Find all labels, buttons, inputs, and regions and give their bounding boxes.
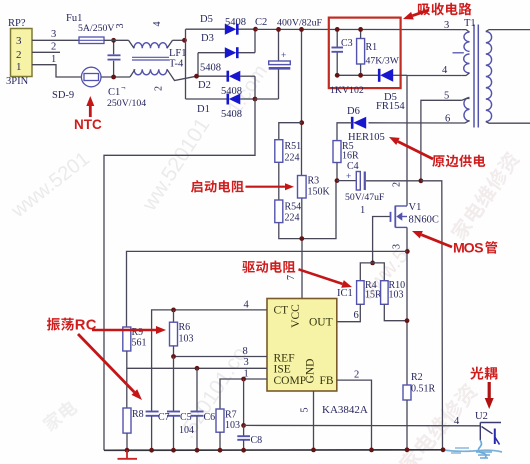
svg-text:T-4: T-4 xyxy=(169,59,184,70)
bridge left vertical bus xyxy=(185,29,187,99)
op-amp/PWM IC U1 KA3842A xyxy=(267,299,337,392)
svg-text:LF1: LF1 xyxy=(169,48,187,59)
sense wire MOSFET source to R9 xyxy=(127,251,408,327)
svg-text:0.51R: 0.51R xyxy=(411,384,436,395)
wire FB pin2 xyxy=(337,380,372,450)
svg-text:IC1: IC1 xyxy=(337,288,353,299)
svg-text:C5: C5 xyxy=(180,412,192,423)
svg-text:50V/47uF: 50V/47uF xyxy=(345,192,385,203)
capacitor C4 electrolytic xyxy=(337,171,421,190)
wire pin2 stub xyxy=(32,51,60,53)
junction R51 branch top xyxy=(299,120,304,125)
svg-text:3: 3 xyxy=(16,35,22,47)
bridge right vertical top xyxy=(254,29,256,53)
wire T1 pin4 to drain bus xyxy=(407,76,462,206)
svg-text:C3: C3 xyxy=(341,38,353,49)
wire D5 row xyxy=(186,28,225,30)
red arrow to U2 xyxy=(488,382,491,398)
svg-text:D1: D1 xyxy=(197,104,210,115)
red arrow to C7 xyxy=(78,334,134,392)
wire R51 branch xyxy=(279,123,302,140)
junction bus x407 xyxy=(405,447,410,452)
svg-text:¬: ¬ xyxy=(121,83,126,92)
capacitor C5 xyxy=(167,411,180,413)
svg-text:SD-9: SD-9 xyxy=(52,90,74,101)
svg-text:5: 5 xyxy=(299,407,310,412)
svg-text:2: 2 xyxy=(16,49,22,61)
svg-text:1: 1 xyxy=(51,54,56,65)
svg-text:103: 103 xyxy=(389,290,404,301)
svg-text:103: 103 xyxy=(179,334,194,345)
red label xishou dianlu (snubber circuit) xyxy=(418,3,430,15)
HV- return wire xyxy=(104,99,255,450)
svg-text:150K: 150K xyxy=(308,187,331,198)
red label qidong dianzu (startup resistor) xyxy=(191,180,203,192)
svg-text:ISE: ISE xyxy=(274,364,291,376)
svg-text:7: 7 xyxy=(286,275,297,280)
svg-text:250V/104: 250V/104 xyxy=(107,98,146,109)
svg-text:3: 3 xyxy=(244,357,249,368)
junction bus x173.5 xyxy=(171,448,176,453)
wire R8 to ground bus xyxy=(126,433,128,450)
wire pin3 to fuse xyxy=(32,39,79,41)
diode D5 (bridge) 5408 xyxy=(225,24,238,35)
svg-text:2: 2 xyxy=(51,42,56,53)
junction bridge + output xyxy=(253,27,258,32)
red label qudong dianzu (drive resistor) xyxy=(242,261,255,273)
svg-text:D6: D6 xyxy=(347,106,360,117)
capacitor C2 electrolytic xyxy=(255,29,290,99)
svg-text:3: 3 xyxy=(392,244,403,249)
svg-text:6: 6 xyxy=(354,310,359,321)
svg-text:224: 224 xyxy=(285,153,300,164)
junction bridge - output xyxy=(253,97,258,102)
wire NTC to C1 node xyxy=(101,76,130,78)
diode D3 5408 xyxy=(225,47,238,58)
ground bus bottom xyxy=(104,449,443,452)
junction R10/source bus xyxy=(405,318,410,323)
svg-text:R7: R7 xyxy=(225,410,237,421)
svg-text:4: 4 xyxy=(454,416,460,427)
junction bus x127 xyxy=(125,448,130,453)
wire R10 bottom to source bus xyxy=(384,304,407,320)
svg-text:4: 4 xyxy=(152,21,163,26)
svg-text:400V/82uF: 400V/82uF xyxy=(277,18,323,29)
capacitor C8 xyxy=(243,425,245,435)
resistor R54 xyxy=(275,200,283,223)
svg-text:COMP: COMP xyxy=(274,375,307,387)
transistor V1 8N60C MOSFET xyxy=(391,206,408,228)
svg-text:KA3842A: KA3842A xyxy=(322,404,368,416)
svg-text:2: 2 xyxy=(354,370,359,381)
junction choke top / bridge xyxy=(182,38,187,43)
capacitor C3 xyxy=(332,29,344,75)
red label yuanbian gongdian (primary supply) xyxy=(432,155,444,167)
svg-text:3: 3 xyxy=(115,23,126,28)
svg-text:561: 561 xyxy=(132,338,147,349)
svg-text:R8: R8 xyxy=(132,409,144,420)
startup bus vertical (R3 branch) xyxy=(301,29,303,175)
svg-text:D2: D2 xyxy=(198,80,211,91)
wire R9 to R8 xyxy=(126,351,128,408)
svg-text:5408: 5408 xyxy=(225,17,246,28)
common-mode choke LF1 T-4 xyxy=(129,40,197,80)
svg-text:CT: CT xyxy=(274,305,289,317)
wire D1 row xyxy=(186,98,228,100)
junction bus x243.6 xyxy=(241,448,246,453)
resistor R5 xyxy=(333,141,341,163)
svg-text:+: + xyxy=(346,171,351,181)
resistor R2 xyxy=(403,385,411,400)
wire GND pin5 xyxy=(313,391,315,450)
junction bus x371.5 xyxy=(369,448,374,453)
svg-text:C8: C8 xyxy=(251,435,263,446)
svg-text:104: 104 xyxy=(179,425,194,436)
junction C4 node xyxy=(335,178,340,183)
red arrow to R6 xyxy=(92,329,156,332)
bus continuation (light blue) xyxy=(443,450,502,452)
ground symbol (red) xyxy=(126,450,128,458)
wire COMP pin1 xyxy=(220,379,267,409)
capacitor C7 xyxy=(146,411,159,413)
wire R6 node down through C5 xyxy=(173,357,175,412)
wire R2 to bus xyxy=(406,400,408,450)
optocoupler U2 xyxy=(476,423,501,459)
svg-text:3: 3 xyxy=(51,29,56,40)
red arrow to MOSFET xyxy=(421,235,452,247)
red arrow to NTC xyxy=(89,106,92,117)
svg-text:R1: R1 xyxy=(366,42,378,53)
svg-text:8: 8 xyxy=(243,346,248,357)
svg-text:C2: C2 xyxy=(255,17,267,28)
svg-text:OUT: OUT xyxy=(309,317,333,329)
svg-text:R: R xyxy=(75,317,86,333)
svg-text:R2: R2 xyxy=(411,372,423,383)
svg-text:3PIN: 3PIN xyxy=(6,76,29,87)
fuse Fu1 xyxy=(79,37,104,44)
svg-text:C4: C4 xyxy=(347,161,359,172)
red label zhendang RC (oscillator RC) xyxy=(47,318,60,331)
svg-text:224: 224 xyxy=(285,213,300,224)
junction R6 top xyxy=(171,308,176,313)
svg-text:S: S xyxy=(474,240,483,256)
junction ISE / C6 xyxy=(195,366,200,371)
wire C4 node to right bus xyxy=(421,181,443,450)
HV+ top bus xyxy=(256,28,462,30)
junction startup bottom xyxy=(299,236,304,241)
svg-text:5408: 5408 xyxy=(221,109,242,120)
svg-text:16R: 16R xyxy=(342,151,359,162)
svg-text:3: 3 xyxy=(444,20,449,31)
svg-text:1: 1 xyxy=(360,205,365,216)
wire D2 row xyxy=(197,75,228,77)
junction bus x443 xyxy=(441,447,446,452)
diode D5 FR154 (snubber) xyxy=(379,69,393,82)
svg-text:4: 4 xyxy=(244,300,250,311)
red arrow to HER105 xyxy=(398,142,433,160)
wire ISE pin3 xyxy=(127,367,267,369)
junction COMP node xyxy=(241,377,246,382)
svg-text:RP?: RP? xyxy=(8,18,26,29)
svg-text:5A/250V: 5A/250V xyxy=(78,23,114,34)
junction bus x197 xyxy=(195,448,200,453)
resistor R10 xyxy=(381,281,389,305)
snubber bottom wire xyxy=(337,74,379,76)
connector RP? 3PIN xyxy=(11,29,33,77)
junction C3 bottom xyxy=(335,73,340,78)
svg-text:2: 2 xyxy=(154,86,165,91)
svg-text:5408: 5408 xyxy=(200,63,221,74)
resistor R3 xyxy=(298,176,307,199)
diode D6 HER105 xyxy=(352,117,366,129)
svg-text:+: + xyxy=(281,50,286,60)
drive rail wire xyxy=(360,263,384,281)
wire fuse to choke top xyxy=(104,39,129,41)
junction gate / drive rail xyxy=(370,261,375,266)
junction C2 top xyxy=(276,27,281,32)
resistor R6 xyxy=(170,310,178,357)
svg-text:T1: T1 xyxy=(464,18,476,29)
svg-text:NTC: NTC xyxy=(74,117,102,132)
wire D3 row xyxy=(198,52,225,54)
junction R1 top xyxy=(358,27,363,32)
bridge right vertical bottom xyxy=(254,76,256,99)
resistor R7 xyxy=(216,409,224,432)
diode D1 5408 xyxy=(228,94,241,105)
wire R4 bottom to OUT xyxy=(337,304,361,321)
junction C1 bottom xyxy=(111,75,116,80)
svg-text:FB: FB xyxy=(320,375,334,387)
svg-text:D5: D5 xyxy=(200,14,213,25)
svg-text:O: O xyxy=(464,240,475,256)
red arrow to R4 xyxy=(299,269,343,284)
resistor R8 xyxy=(123,408,131,433)
svg-text:R6: R6 xyxy=(179,322,191,333)
svg-text:1: 1 xyxy=(16,61,22,73)
wire feedback to optocoupler xyxy=(244,424,481,426)
svg-text:R3: R3 xyxy=(308,176,320,187)
wire D6 cathode to R5 xyxy=(337,123,352,141)
junction bus x313.5 xyxy=(311,448,316,453)
wire gate xyxy=(373,217,390,263)
svg-text:R54: R54 xyxy=(285,202,302,213)
svg-text:C1: C1 xyxy=(108,87,120,98)
red arrow to snubber box xyxy=(412,10,429,16)
resistor R9 xyxy=(123,327,131,351)
wire pin1 down to NTC row xyxy=(32,65,82,77)
wire choke top to bridge xyxy=(173,39,186,41)
svg-text:V1: V1 xyxy=(409,202,422,213)
resistor R4 xyxy=(357,281,365,305)
bridge mid-left vertical xyxy=(197,53,199,76)
thermistor NTC SD-9 xyxy=(81,67,101,87)
svg-text:GND: GND xyxy=(305,359,317,384)
wire COMP node down xyxy=(243,379,245,425)
junction bus x220 xyxy=(218,448,223,453)
capacitor C6 xyxy=(196,368,198,411)
junction source/sense xyxy=(405,249,410,254)
wire R7 to bus xyxy=(219,432,221,450)
capacitor C1 xyxy=(108,40,121,77)
wire source down xyxy=(406,227,408,385)
junction C8 top xyxy=(241,423,246,428)
red label guangou (optocoupler) xyxy=(470,367,483,380)
red arrow to R3 xyxy=(246,186,286,188)
junction pin5/C4 xyxy=(419,178,424,183)
wire T1 pin6 to D6 xyxy=(369,122,461,124)
svg-text:R51: R51 xyxy=(285,141,302,152)
junction R6 bottom / REF xyxy=(171,354,176,359)
svg-text:47K/3W: 47K/3W xyxy=(366,56,400,67)
svg-text:103: 103 xyxy=(225,420,240,431)
wire T1 pin5 down xyxy=(421,100,462,181)
resistor R51 xyxy=(275,140,283,163)
transformer T1 xyxy=(453,25,530,128)
junction bus x151.6 xyxy=(149,448,154,453)
svg-text:C7: C7 xyxy=(158,412,170,423)
resistor R1 xyxy=(357,29,365,75)
junction startup top xyxy=(299,27,304,32)
svg-text:R9: R9 xyxy=(132,327,144,338)
junction C1 top xyxy=(111,38,116,43)
junction R1 bottom xyxy=(358,73,363,78)
junction AC into bridge xyxy=(194,74,199,79)
svg-text:1KV102: 1KV102 xyxy=(330,85,364,96)
svg-text:4: 4 xyxy=(442,65,448,76)
svg-text:C6: C6 xyxy=(204,412,216,423)
svg-text:FR154: FR154 xyxy=(376,101,405,112)
wire R5 bottom to C4 node xyxy=(336,163,338,181)
wire CT pin4 xyxy=(152,310,267,411)
wire REF pin8 xyxy=(174,356,268,358)
diode D2 5408 xyxy=(228,71,241,82)
svg-text:U2: U2 xyxy=(475,411,488,422)
junction C3 top xyxy=(335,27,340,32)
svg-text:2: 2 xyxy=(392,182,403,187)
svg-text:15R: 15R xyxy=(365,290,382,301)
svg-text:D3: D3 xyxy=(201,33,214,44)
snubber red box (absorb circuit) xyxy=(329,18,401,89)
svg-text:8N60C: 8N60C xyxy=(409,215,439,226)
svg-text:VCC: VCC xyxy=(290,304,302,328)
